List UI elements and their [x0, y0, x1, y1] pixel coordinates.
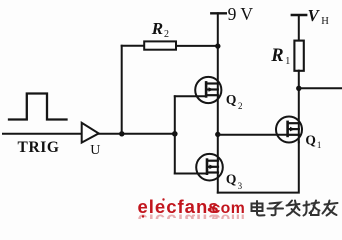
- char zi: [268, 203, 284, 216]
- power terminal VH: [292, 14, 306, 16]
- label 9 V: [228, 4, 254, 24]
- wire VH rail lower through Q1: [298, 71, 300, 143]
- wire Q2 gate stub: [175, 95, 206, 97]
- wire R2 left horizontal: [122, 45, 145, 47]
- label Q1: [305, 132, 321, 149]
- watermark chinese characters dian zi fa shao you: [252, 201, 338, 216]
- svg-text:1: 1: [317, 140, 322, 150]
- wire buffer output: [99, 133, 175, 135]
- wire Q1 gate: [218, 134, 288, 136]
- label Q3: [226, 171, 243, 190]
- power terminal 9V: [211, 12, 226, 14]
- label TRIG: [18, 139, 60, 156]
- svg-text:Q: Q: [226, 92, 237, 107]
- label R2: [151, 19, 169, 40]
- svg-text:2: 2: [238, 101, 243, 111]
- svg-text:H: H: [321, 16, 329, 27]
- svg-text:U: U: [90, 143, 100, 158]
- wire VH rail upper: [298, 15, 300, 41]
- svg-text:R: R: [270, 46, 283, 66]
- svg-text:R: R: [151, 19, 163, 38]
- wire R2 left vertical: [121, 46, 123, 134]
- node: Q2/Q3 midpoint to Q1 gate: [215, 132, 220, 137]
- label U: [90, 143, 100, 158]
- char shao: [304, 201, 320, 216]
- label R1: [270, 46, 290, 67]
- node: R2 tap on buffer output: [119, 131, 124, 136]
- wire gate branch vertical: [174, 96, 176, 173]
- node: 9V rail / R2 junction: [215, 43, 220, 48]
- resistor R2: [144, 41, 176, 49]
- wire output to right edge: [299, 87, 342, 89]
- input pulse waveform: [9, 94, 67, 120]
- svg-text:1: 1: [285, 56, 290, 67]
- buffer U (triangle): [82, 123, 99, 143]
- wire 9V rail vertical (totem pole drain-source line): [217, 13, 219, 192]
- svg-text:3: 3: [238, 181, 243, 191]
- svg-text:V: V: [308, 6, 321, 25]
- svg-text:Q: Q: [305, 132, 316, 147]
- transistor Q3: [196, 154, 223, 181]
- svg-text:9 V: 9 V: [228, 4, 254, 24]
- char dian: [252, 201, 265, 216]
- svg-text:Q: Q: [226, 171, 237, 186]
- wire R2 right to 9V rail: [176, 45, 218, 47]
- label VH: [308, 6, 330, 27]
- transistor Q1: [276, 117, 302, 143]
- resistor R1: [294, 41, 303, 71]
- wire Q3 gate stub: [175, 173, 207, 175]
- svg-text:TRIG: TRIG: [18, 139, 60, 156]
- node: R1 bottom / output tap: [296, 86, 301, 91]
- transistor Q2: [195, 77, 221, 103]
- wire bottom return: [218, 142, 299, 192]
- char you: [323, 201, 338, 216]
- label Q2: [226, 92, 243, 111]
- char fa: [287, 201, 300, 216]
- node: gate branch on buffer output: [172, 131, 178, 137]
- watermark elecfans.com logo: [138, 196, 246, 232]
- svg-text:2: 2: [164, 29, 169, 40]
- wire TRIG input: [3, 133, 82, 135]
